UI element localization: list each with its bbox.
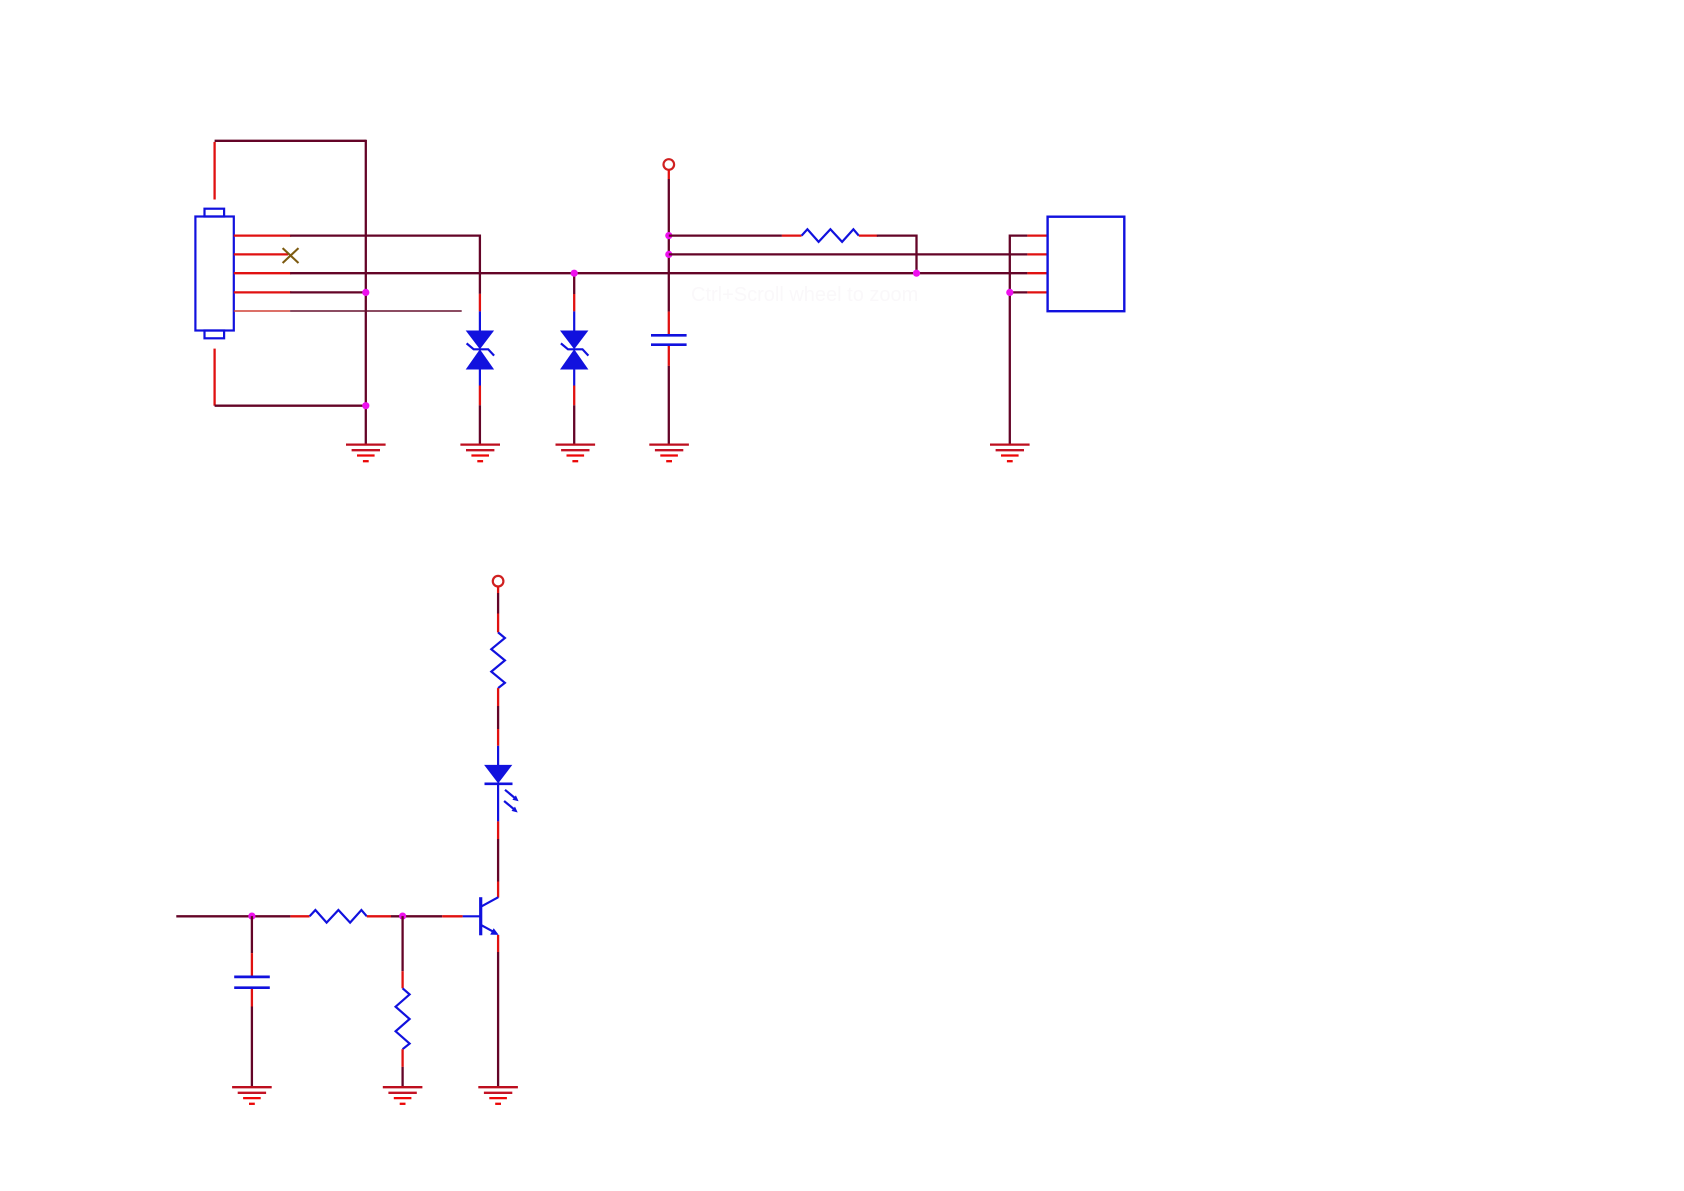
node: junction dot TVS D2 on long net <box>571 270 578 277</box>
ground (under transistor emitter) <box>478 1087 518 1104</box>
wire: box pin4 stub <box>1010 291 1048 293</box>
wire: capacitor C1 bottom to ground <box>668 346 670 444</box>
LED D3 <box>484 765 512 784</box>
wire: pin1 of connector to TVS D1 (red stub then maroon) <box>234 236 480 331</box>
capacitor C2 <box>234 977 270 988</box>
node: junction dot base net / C2 <box>248 913 255 920</box>
wire: TVS D2 bottom to ground <box>573 368 575 443</box>
node: junction dot pin4/vertical <box>362 289 369 296</box>
wire: pin4 to vertical net <box>234 291 366 293</box>
wire: base net horizontal <box>176 915 309 917</box>
wire: power rail vertical <box>668 170 670 334</box>
wire: TVS D2 top from long net <box>573 273 575 330</box>
wire: TVS D1 bottom to ground <box>479 368 481 443</box>
resistor R1 <box>802 229 859 242</box>
wire: pin3 long net to box pin3 <box>234 272 1048 274</box>
resistor R4 <box>491 632 505 688</box>
wire: LED cathode down to transistor collector <box>497 784 499 898</box>
wire: R4 bottom to LED <box>497 688 499 765</box>
transistor Q1 (NPN) <box>463 897 499 935</box>
node: power rail dot row2 <box>665 251 672 258</box>
ground (left, under vertical net) <box>346 445 386 462</box>
node: junction dot at vertical/bottom wire <box>362 402 369 409</box>
ground (under TVS D2) <box>556 445 596 462</box>
svg-text:Ctrl+Scroll wheel to zoom: Ctrl+Scroll wheel to zoom <box>691 284 918 306</box>
wire: R3 bottom to ground <box>401 1049 403 1086</box>
wire: C2 bottom to ground <box>251 989 253 1086</box>
wire: pin5 thin stub net <box>234 310 462 312</box>
wire: vertical net at x=365.8 <box>365 140 367 444</box>
box U1 <box>1048 217 1125 312</box>
wire: row2 from power rail to box pin2 <box>669 253 1048 255</box>
node: junction dot pin4 on ground vertical <box>1006 289 1013 296</box>
connector J1 <box>195 209 233 339</box>
ground (under R3) <box>383 1087 423 1104</box>
node: junction dot R1 leg on long net <box>913 270 920 277</box>
wire: top-left loop (connector top to ground rail) <box>215 141 366 200</box>
node: power rail dot row1 <box>665 232 672 239</box>
wire: box pin1 corner and ground vertical <box>1010 236 1048 444</box>
wire: row1 from power rail to resistor R1 <box>669 234 802 236</box>
TVS diode D1 <box>466 331 494 370</box>
power terminal P2 (open circle) <box>493 576 504 587</box>
LED light arrows <box>504 790 518 813</box>
capacitor C1 <box>651 335 687 344</box>
no-connect X mark <box>283 248 299 263</box>
ground (under TVS D1) <box>460 445 500 462</box>
wire: R3 leg down <box>401 916 403 988</box>
wire: connector bottom to ground rail <box>215 349 366 406</box>
ground (under C1) <box>649 445 689 462</box>
resistor R3 <box>396 988 410 1049</box>
power terminal P1 (open circle) <box>664 159 675 170</box>
wire: pin2 stub (no connect) <box>234 253 288 255</box>
wire: P2 down to resistor R4 <box>497 587 499 633</box>
ground (under C2) <box>232 1087 272 1104</box>
wire: C2 leg down <box>251 916 253 976</box>
node: junction dot base net / R3 <box>399 913 406 920</box>
TVS diode D2 <box>560 331 588 370</box>
wire: R2 right to transistor base <box>367 915 463 917</box>
resistor R2 <box>310 910 367 923</box>
wire: emitter to ground <box>497 935 499 1086</box>
wire: resistor R1 right to long net (corner down) <box>859 236 917 274</box>
ground (under box vertical) <box>990 445 1030 462</box>
